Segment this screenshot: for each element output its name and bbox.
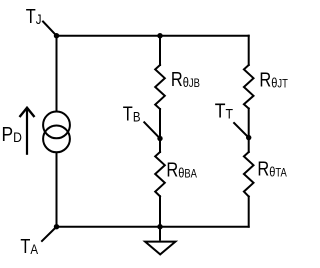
label RθJB xyxy=(171,67,200,90)
wire right branch lower lead xyxy=(248,197,250,227)
pointer TA xyxy=(42,227,57,241)
label RθBA xyxy=(166,158,197,181)
wire ground stub xyxy=(159,227,161,241)
label TT xyxy=(215,99,233,121)
pointer TT xyxy=(234,123,249,138)
current source PD (two circles) xyxy=(43,112,70,139)
resistor RθBA xyxy=(155,152,165,196)
label TB xyxy=(123,102,141,125)
wire left branch lower xyxy=(56,153,58,227)
resistor RθTA xyxy=(244,152,254,197)
node TB dot xyxy=(157,136,162,141)
arrow PD xyxy=(26,110,28,154)
resistor RθJT xyxy=(244,65,254,109)
node TA dot xyxy=(54,224,59,229)
node TJ dot xyxy=(54,33,59,38)
wire left branch upper xyxy=(56,36,58,111)
wire right branch upper lead xyxy=(248,36,250,65)
node TT dot xyxy=(246,135,251,140)
wire middle branch lower lead xyxy=(159,196,161,226)
node top of middle branch dot xyxy=(157,33,162,38)
label PD xyxy=(2,123,22,145)
wire right branch middle lead xyxy=(248,109,250,153)
label TJ xyxy=(26,4,42,27)
wire middle branch middle lead xyxy=(159,109,161,152)
ground xyxy=(145,242,175,255)
pointer TJ xyxy=(43,22,57,36)
node ground junction dot xyxy=(157,224,162,229)
wire top rail xyxy=(57,35,249,37)
wire middle branch upper lead xyxy=(159,36,161,65)
wire bottom rail xyxy=(57,226,249,228)
label RθTA xyxy=(257,157,286,180)
label RθJT xyxy=(259,68,288,91)
pointer TB xyxy=(144,122,160,138)
label TA xyxy=(20,235,38,258)
resistor RθJB xyxy=(155,65,165,109)
